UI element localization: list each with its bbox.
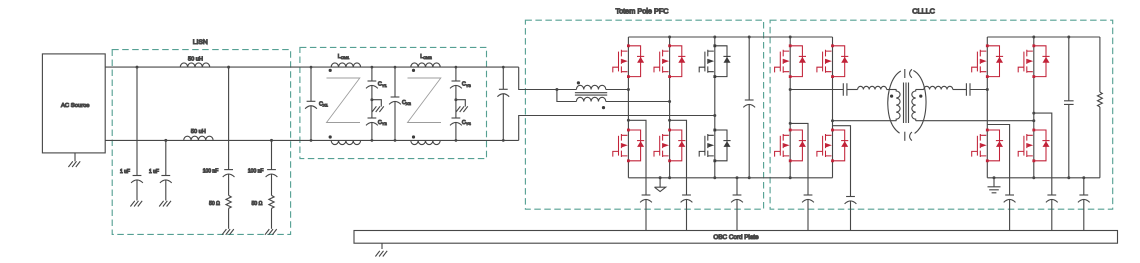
svg-text:1 uF: 1 uF (149, 169, 159, 175)
svg-text:LISN: LISN (193, 39, 208, 46)
wire tank top from legA (790, 89, 843, 91)
wire top winding to leg1 (606, 89, 629, 91)
mosfet QA2 (CLLLC legA bottom) (775, 129, 806, 163)
node dots PFC midpoints (627, 88, 630, 91)
mosfet Q6 (PFC leg3 bottom, Si) (699, 129, 730, 163)
wire tank bottom to legB (833, 120, 897, 122)
wire jog top rail to PFC (519, 67, 557, 89)
svg-text:CY2: CY2 (378, 120, 388, 126)
resistor load (1099, 37, 1101, 92)
svg-text:50 Ω: 50 Ω (209, 201, 220, 207)
choke LCM2 top dot (412, 69, 415, 72)
capacitor CY2 (366, 118, 378, 125)
node dots right top bus (1032, 36, 1035, 39)
wire bottom rail N (105, 139, 519, 141)
svg-text:100 nF: 100 nF (248, 169, 264, 175)
AC source ground (74, 153, 76, 161)
capacitor 100nF #2 branch (271, 140, 273, 169)
svg-text:CY4: CY4 (462, 120, 472, 126)
svg-text:CY1: CY1 (378, 82, 388, 88)
parasitic cap right from bus (1083, 178, 1085, 195)
mosfet QD2 (CLLLC legD bottom) (1018, 129, 1049, 163)
wire CLLLC left leg A (789, 37, 791, 178)
wire tank secondary top (916, 89, 924, 91)
transformer shield left arc (888, 71, 901, 133)
node dot 100nF#1 (227, 66, 230, 69)
svg-text:CX1: CX1 (319, 102, 329, 108)
boost bottom winding dot (602, 106, 605, 109)
node dot CY mid 1 (370, 98, 373, 101)
transformer secondary dot (919, 95, 922, 98)
capacitor 100nF #1 branch (228, 67, 230, 170)
wire top winding lead (557, 89, 577, 91)
svg-text:50 uH: 50 uH (188, 57, 203, 63)
node dot 1uF#2 (164, 139, 167, 142)
transformer primary winding (896, 90, 900, 121)
wire boost split drop (557, 90, 577, 102)
inductor Lr1 (858, 86, 887, 89)
svg-text:LCM1: LCM1 (338, 54, 350, 60)
inductor Lr2 (924, 86, 953, 89)
ground 1uF#1 (130, 201, 142, 207)
wire CLLLC right leg C (986, 37, 988, 178)
wire tank secondary bottom (916, 120, 1034, 122)
resistor 50ohm #1 (226, 195, 231, 208)
choke LCM2 bottom dot (412, 135, 415, 138)
capacitor 1uF #1 branch (136, 67, 138, 175)
mosfet QC1 (CLLLC legC top) (972, 44, 1003, 78)
node dot 1uF#1 (136, 66, 139, 69)
ground CY mid 1 (372, 100, 381, 107)
mosfet Q2 (PFC leg1 bottom, GaN) (613, 129, 644, 163)
parasitic cap branch legA (789, 122, 792, 125)
svg-text:OBC Cord Plate: OBC Cord Plate (713, 234, 759, 241)
choke LCM2 Z core (408, 78, 442, 123)
parasitic cap branch legD (1032, 112, 1035, 115)
capacitor Cr1 (843, 83, 847, 96)
mosfet QD1 (CLLLC legD top) (1018, 44, 1049, 78)
capacitor CY4 (450, 118, 462, 125)
wire PFC leg3 (714, 37, 716, 178)
shield capacitor bottom (904, 132, 906, 141)
svg-text:LCM2: LCM2 (420, 54, 432, 60)
capacitor output (1064, 101, 1074, 105)
ground CY mid 2 (456, 100, 465, 107)
boost top winding dot (577, 81, 580, 84)
OBC cord plate ground (381, 243, 383, 249)
transformer shield right arc (913, 71, 926, 134)
capacitor CX1 (310, 67, 312, 101)
choke LCM1 top winding (331, 63, 360, 67)
LISN inductor 50uH top (180, 63, 209, 67)
svg-text:AC Source: AC Source (61, 103, 90, 109)
svg-text:Totem Pole PFC: Totem Pole PFC (615, 7, 668, 16)
wire CLLLC right top bus (987, 36, 1100, 38)
choke LCM1 bottom dot (329, 135, 332, 138)
parasitic cap branch leg2 (668, 119, 671, 122)
node dot CY mid 2 (454, 98, 457, 101)
node dot legA midpoint (789, 88, 792, 91)
node dot legB midpoint (831, 119, 834, 122)
boost inductor bottom winding (576, 97, 605, 101)
choke LCM2 bottom winding (411, 140, 440, 144)
capacitor dc link (743, 100, 755, 107)
resistor 50ohm #2 (269, 195, 274, 208)
svg-text:CY3: CY3 (462, 82, 472, 88)
parasitic cap branch legB (833, 126, 851, 197)
ground 50ohm#2 (265, 229, 277, 235)
node dots PFC bottom bus (668, 176, 671, 179)
parasitic cap leg3 from bus (736, 178, 738, 195)
wire PFC bottom bus (628, 177, 832, 179)
transformer secondary winding (912, 90, 916, 121)
node dot 100nF#2 (270, 139, 273, 142)
mosfet QB2 (CLLLC legB bottom) (817, 129, 848, 163)
node dot legC midpoint (986, 88, 989, 91)
wire output cap vertical (1068, 37, 1070, 178)
mosfet QC2 (CLLLC legC bottom) (972, 129, 1003, 163)
node split boost (555, 88, 558, 91)
node dot legD midpoint (1032, 119, 1035, 122)
mosfet Q5 (PFC leg3 top, Si) (699, 44, 730, 78)
parasitic cap branch leg1 (627, 119, 630, 122)
PFC ground triangle (659, 176, 662, 179)
svg-text:50 Ω: 50 Ω (252, 201, 263, 207)
boost inductor top winding (576, 85, 605, 89)
capacitor CY3 (455, 67, 457, 81)
mosfet QA1 (CLLLC legA top) (775, 44, 806, 78)
boost inductor core lines (575, 93, 607, 95)
svg-text:CLLLC: CLLLC (912, 6, 935, 15)
choke LCM1 Z core (327, 78, 361, 123)
mosfet Q4 (PFC leg2 bottom, GaN) (654, 129, 685, 163)
CLLLC dashed box (770, 20, 1113, 209)
Totem Pole PFC dashed box (525, 20, 763, 209)
choke LCM1 bottom winding (331, 140, 360, 144)
wire PFC leg2 (669, 37, 671, 178)
dc link vertical (748, 37, 750, 178)
svg-text:100 nF: 100 nF (203, 169, 219, 175)
capacitor X across dc input (502, 67, 504, 89)
choke LCM2 top winding (411, 63, 440, 67)
OBC cord plate bar (354, 231, 1118, 244)
ground right bridge (3-bar) (993, 176, 996, 179)
node dots right bottom bus (1032, 176, 1035, 179)
svg-text:50 uH: 50 uH (191, 129, 206, 135)
LISN inductor 50uH bottom (184, 136, 213, 140)
transformer primary dot (890, 95, 893, 98)
capacitor Cr2 (966, 83, 970, 96)
capacitor CX2 (394, 67, 396, 97)
wire jog bottom rail to PFC leg3 (519, 116, 715, 141)
wire top rail L (105, 66, 519, 68)
wire CLLLC right leg D (1033, 37, 1035, 178)
ground 1uF#2 (159, 201, 171, 207)
transformer core lines (904, 83, 909, 124)
LISN dashed box (112, 50, 290, 235)
mosfet Q1 (PFC leg1 top, GaN) (613, 44, 644, 78)
wire CLLLC left leg B (832, 37, 834, 178)
svg-text:CX2: CX2 (402, 100, 412, 106)
wire PFC leg1 (627, 37, 629, 178)
mosfet QB1 (CLLLC legB top) (817, 44, 848, 78)
parasitic cap branch legC (987, 125, 1009, 196)
mosfet Q3 (PFC leg2 top, GaN) (654, 44, 685, 78)
EMI filter dashed box (300, 47, 487, 158)
wire CLLLC right bottom bus (987, 177, 1100, 179)
choke LCM1 top dot (329, 69, 332, 72)
AC source box (42, 54, 105, 153)
wire PFC top bus (628, 36, 832, 38)
capacitor 1uF #2 branch (165, 140, 167, 175)
wire bottom winding to leg2 (606, 101, 670, 103)
svg-text:1 uF: 1 uF (120, 169, 130, 175)
ground 50ohm#1 (222, 229, 234, 235)
node dots PFC top bus (668, 36, 671, 39)
shield capacitor top (904, 69, 906, 78)
capacitor CY1 (371, 67, 373, 81)
